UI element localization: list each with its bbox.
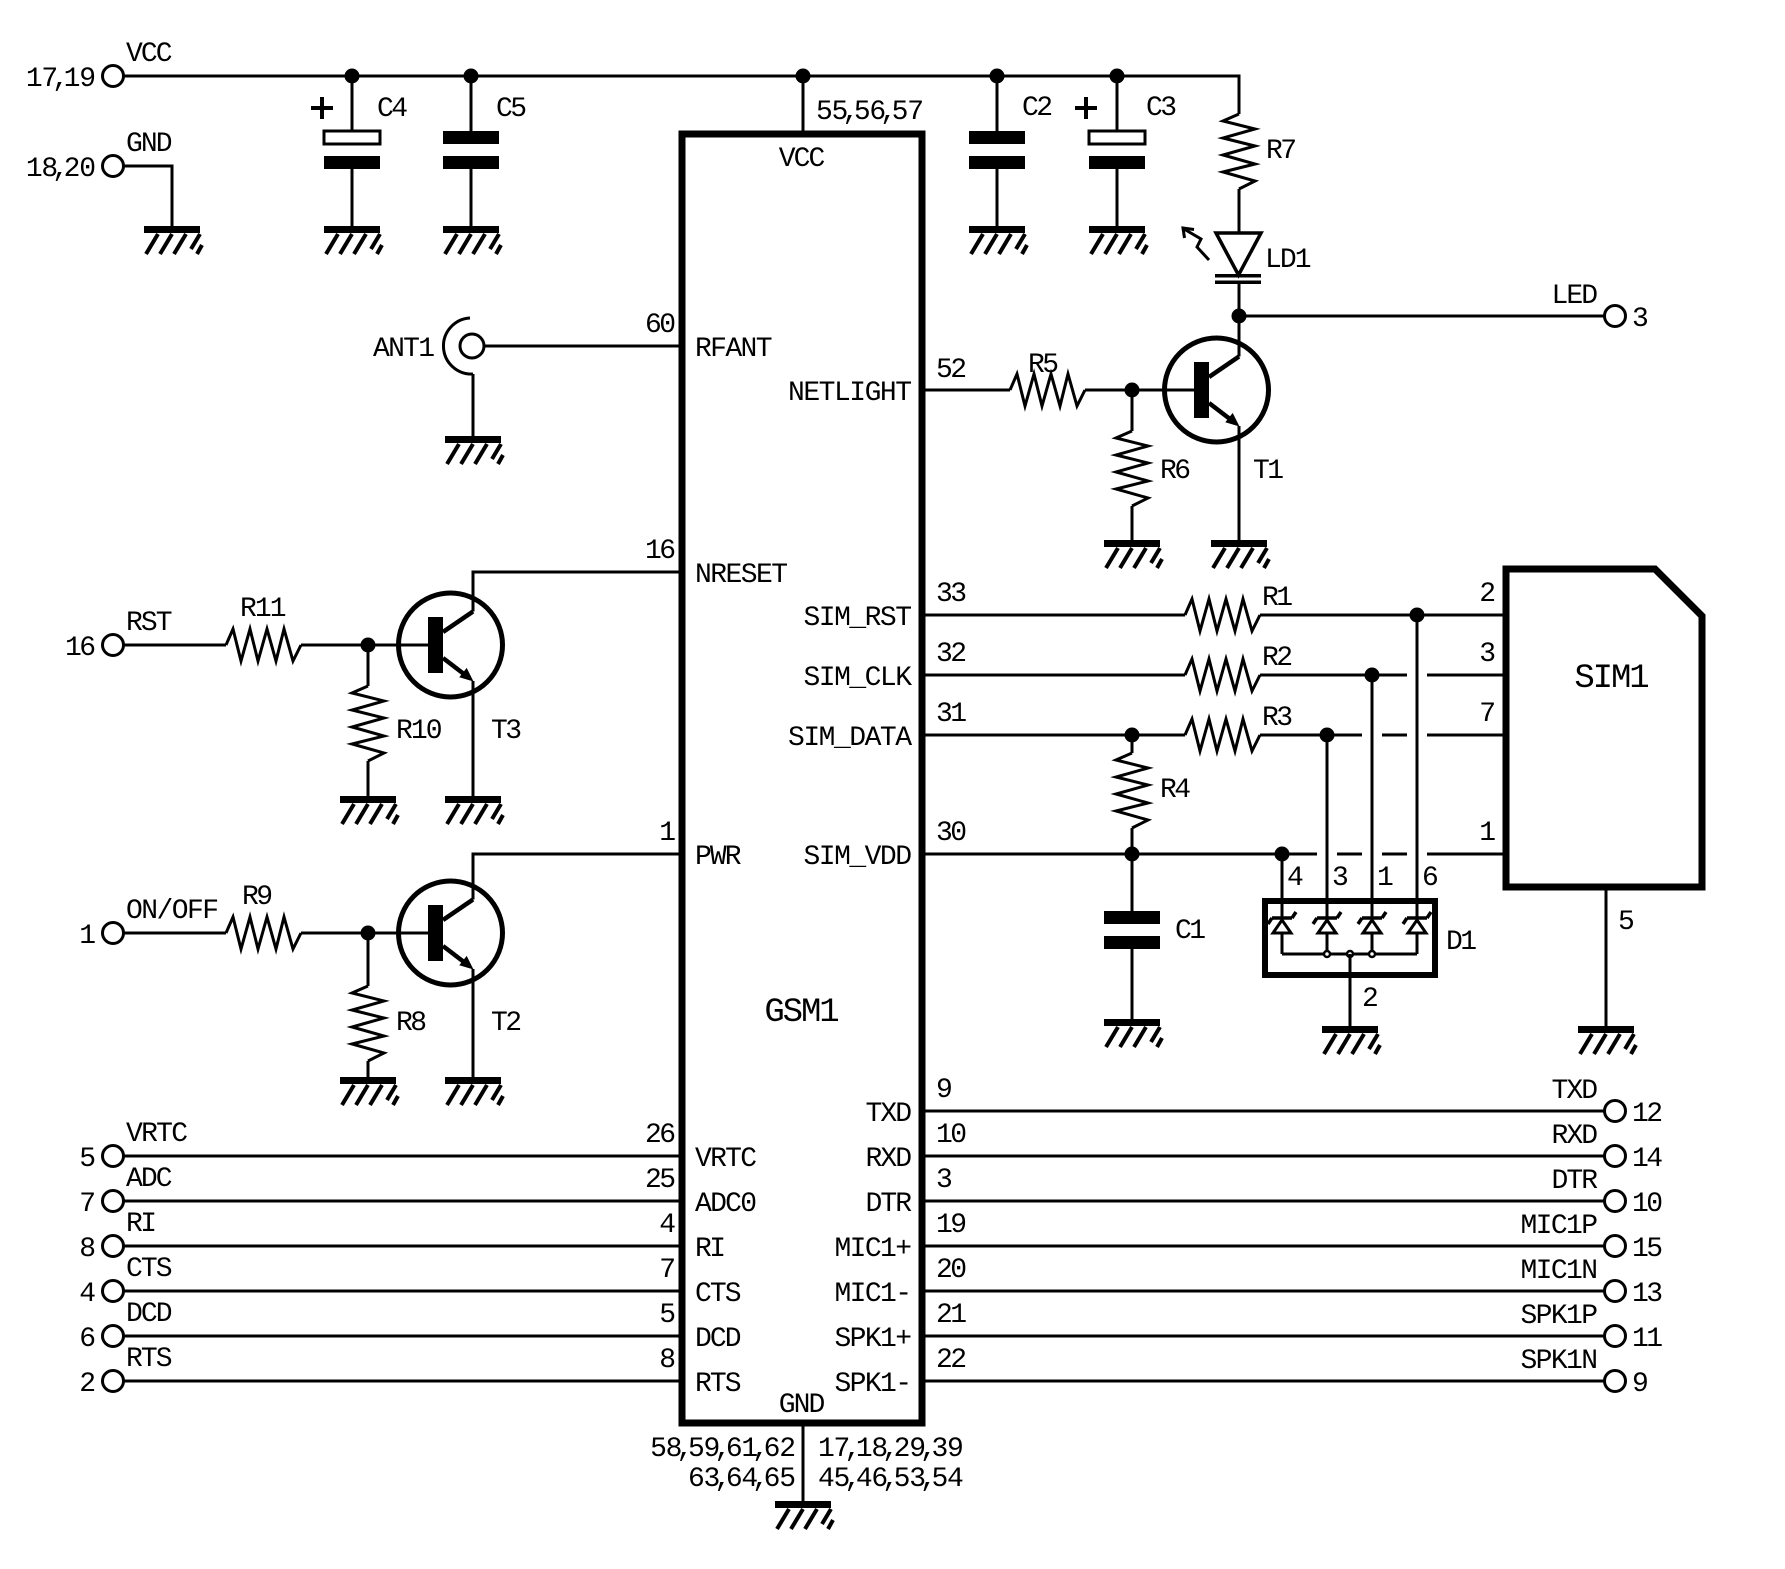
terminal 18,20 GND [103, 156, 124, 177]
capacitor C5 [443, 131, 499, 169]
terminal 5 VRTC [103, 1146, 124, 1167]
svg-text:1: 1 [1377, 863, 1394, 894]
resistor R5 [1010, 374, 1085, 406]
svg-text:3: 3 [1479, 639, 1496, 670]
svg-text:LD1: LD1 [1265, 245, 1312, 276]
svg-text:CTS: CTS [695, 1279, 742, 1310]
svg-text:MIC1+: MIC1+ [835, 1234, 913, 1265]
svg-text:T2: T2 [491, 1008, 522, 1039]
wire GSM1 VCC pin [802, 76, 805, 134]
svg-text:2: 2 [1362, 984, 1379, 1015]
svg-text:RI: RI [126, 1209, 157, 1240]
ground C3 [1089, 226, 1147, 254]
svg-text:TXD: TXD [866, 1099, 913, 1130]
node D1 rail center [1347, 951, 1353, 957]
diode array D1 box [1265, 901, 1435, 975]
svg-text:8: 8 [659, 1345, 676, 1376]
junction LED node [1232, 309, 1247, 324]
svg-text:PWR: PWR [695, 842, 742, 873]
polarity + of C3 [1075, 97, 1097, 119]
svg-text:1: 1 [659, 818, 676, 849]
wire SIM_DATA to R4 [1131, 735, 1134, 753]
node D1 rail pin1 [1369, 951, 1375, 957]
svg-text:9: 9 [936, 1075, 953, 1106]
svg-text:17,18,29,39: 17,18,29,39 [818, 1434, 964, 1465]
resistor R3 [1185, 719, 1260, 751]
junction C4/VCC [345, 69, 360, 84]
resistor R2 [1185, 659, 1260, 691]
capacitor C4 [324, 131, 380, 169]
svg-text:RI: RI [695, 1234, 726, 1265]
svg-text:SIM_VDD: SIM_VDD [804, 842, 913, 873]
wire R6 to ground [1131, 506, 1134, 540]
wire R11 to T3 base [301, 644, 428, 647]
svg-text:LED: LED [1552, 281, 1599, 312]
svg-text:DCD: DCD [695, 1324, 742, 1355]
terminal 8 RI [103, 1236, 124, 1257]
wire segment between crossings 2 [1382, 853, 1407, 856]
svg-text:ON/OFF: ON/OFF [126, 896, 219, 927]
zener diode D1d [1403, 912, 1431, 954]
junction C2/VCC [990, 69, 1005, 84]
capacitor C1 [1104, 911, 1160, 949]
svg-text:4: 4 [1287, 863, 1304, 894]
svg-text:3: 3 [1332, 863, 1349, 894]
svg-text:T1: T1 [1253, 456, 1284, 487]
svg-text:GND: GND [779, 1390, 826, 1421]
wire R7 to LED [1238, 189, 1241, 233]
wire VCC to C5 [470, 76, 473, 131]
svg-text:ADC0: ADC0 [695, 1189, 757, 1220]
svg-text:10: 10 [936, 1120, 967, 1151]
ground C2 [969, 226, 1027, 254]
ground C1 [1104, 1019, 1162, 1047]
wire T3 emitter [472, 681, 475, 796]
svg-text:1: 1 [79, 921, 96, 952]
svg-text:C3: C3 [1146, 93, 1177, 124]
svg-text:CTS: CTS [126, 1254, 173, 1285]
ground C5 [443, 226, 501, 254]
junction C5/VCC [464, 69, 479, 84]
zener diode D1b [1313, 912, 1341, 954]
transistor T3 [399, 593, 503, 697]
svg-text:VCC: VCC [779, 144, 826, 175]
svg-text:11: 11 [1632, 1324, 1663, 1355]
svg-text:RXD: RXD [866, 1144, 913, 1175]
svg-text:17,19: 17,19 [26, 64, 96, 95]
svg-text:20: 20 [936, 1255, 967, 1286]
svg-text:R11: R11 [240, 594, 287, 625]
wire SIM_CLK pin to R2 [922, 674, 1185, 677]
terminal 6 DCD [103, 1326, 124, 1347]
svg-text:RTS: RTS [126, 1344, 173, 1375]
wire segment between crossings [1382, 734, 1407, 737]
svg-text:SPK1P: SPK1P [1521, 1301, 1599, 1332]
svg-text:R7: R7 [1266, 136, 1297, 167]
wire R9 to T2 base [301, 932, 428, 935]
svg-text:R4: R4 [1160, 775, 1191, 806]
svg-text:RXD: RXD [1552, 1121, 1599, 1152]
svg-text:MIC1P: MIC1P [1521, 1211, 1599, 1242]
svg-text:DTR: DTR [1552, 1166, 1599, 1197]
LED LD1 [1183, 228, 1261, 284]
wire SIM1 pin 5 to ground [1605, 887, 1608, 1026]
svg-text:NRESET: NRESET [695, 560, 788, 591]
wire node to R6 [1131, 390, 1134, 431]
svg-text:SPK1+: SPK1+ [835, 1324, 913, 1355]
svg-text:8: 8 [79, 1234, 96, 1265]
svg-text:7: 7 [1479, 699, 1496, 730]
svg-text:SIM1: SIM1 [1574, 660, 1649, 698]
junction SIM_VDD/C1 [1125, 847, 1140, 862]
svg-text:C4: C4 [377, 94, 408, 125]
wire D1 common cathode rail [1282, 953, 1417, 956]
svg-text:GND: GND [126, 129, 173, 160]
wire R4 to SIM_VDD [1131, 828, 1134, 854]
terminal 7 ADC [103, 1191, 124, 1212]
svg-text:2: 2 [79, 1369, 96, 1400]
zener diode D1a [1268, 912, 1296, 954]
svg-text:7: 7 [659, 1255, 676, 1286]
svg-text:RFANT: RFANT [695, 334, 773, 365]
wire to SIM1 pin 7 (after crossing) [1427, 734, 1506, 737]
wire segment between crossings 1 [1337, 853, 1362, 856]
junction SIM_CLK/D1 pin1 [1365, 668, 1380, 683]
junction R6/T1 base [1125, 383, 1140, 398]
svg-text:15: 15 [1632, 1234, 1663, 1265]
junction SIM_RST/D1 pin6 [1410, 608, 1425, 623]
wire D1 pin 6 [1416, 615, 1419, 918]
wire NETLIGHT pin to R5 [922, 389, 1010, 392]
terminal 14 RXD [1605, 1146, 1626, 1167]
junction R10/T3 base [361, 638, 376, 653]
wire MIC1- to terminal 13 [922, 1290, 1604, 1293]
resistor R10 [352, 686, 384, 761]
wire D1 pin 3 [1326, 735, 1329, 918]
svg-text:C5: C5 [496, 94, 527, 125]
svg-text:ADC: ADC [126, 1164, 173, 1195]
svg-text:22: 22 [936, 1345, 967, 1376]
GSM module GSM1 outline [682, 134, 922, 1423]
wire R5 to T1 base [1085, 389, 1194, 392]
svg-text:R10: R10 [396, 716, 443, 747]
svg-text:ANT1: ANT1 [373, 334, 435, 365]
svg-text:DCD: DCD [126, 1299, 173, 1330]
wire RI to GSM1 [124, 1245, 682, 1248]
ground ANT1 [445, 436, 503, 464]
svg-text:6: 6 [1422, 863, 1439, 894]
wire VCC to C3 [1116, 76, 1119, 131]
svg-text:55,56,57: 55,56,57 [816, 97, 924, 128]
wire R8 to ground [367, 1061, 370, 1077]
wire R1 to SIM1 pin 2 [1260, 614, 1506, 617]
terminal 15 MIC1P [1605, 1236, 1626, 1257]
svg-text:60: 60 [645, 310, 676, 341]
svg-text:C2: C2 [1022, 93, 1053, 124]
svg-text:26: 26 [645, 1120, 676, 1151]
wire VCC rail [124, 76, 1239, 114]
svg-text:R6: R6 [1160, 456, 1191, 487]
svg-text:18,20: 18,20 [26, 154, 96, 185]
ground R10 [340, 796, 398, 824]
junction GSM1-VCC pin [796, 69, 811, 84]
svg-text:3: 3 [936, 1165, 953, 1196]
svg-text:32: 32 [936, 639, 967, 670]
svg-text:45,46,53,54: 45,46,53,54 [818, 1464, 964, 1495]
junction C3/VCC [1110, 69, 1125, 84]
wire C5 to ground [470, 169, 473, 226]
wire MIC1+ to terminal 15 [922, 1245, 1604, 1248]
wire T2 emitter [472, 969, 475, 1077]
wire SPK1- to terminal 9 [922, 1380, 1604, 1383]
terminal 2 RTS [103, 1371, 124, 1392]
wire ADC to GSM1 [124, 1200, 682, 1203]
wire LED node to terminal 3 [1239, 315, 1604, 318]
svg-text:16: 16 [645, 536, 676, 567]
resistor R4 [1116, 753, 1148, 828]
junction R8/T2 base [361, 926, 376, 941]
svg-text:2: 2 [1479, 579, 1496, 610]
wire node to R8 [367, 933, 370, 986]
svg-text:VRTC: VRTC [695, 1144, 757, 1175]
svg-text:TXD: TXD [1552, 1076, 1599, 1107]
terminal 12 TXD [1605, 1101, 1626, 1122]
svg-text:R2: R2 [1262, 643, 1293, 674]
wire R10 to ground [367, 761, 370, 796]
svg-text:R5: R5 [1028, 350, 1059, 381]
svg-text:52: 52 [936, 355, 967, 386]
ground R6 [1104, 540, 1162, 568]
svg-text:13: 13 [1632, 1279, 1663, 1310]
svg-text:4: 4 [659, 1210, 676, 1241]
svg-text:63,64,65: 63,64,65 [688, 1464, 796, 1495]
wire ANT1 to RFANT pin [484, 345, 682, 348]
svg-text:SPK1N: SPK1N [1521, 1346, 1599, 1377]
wire to SIM1 pin 1 [1427, 853, 1506, 856]
ground T2 [445, 1077, 503, 1105]
svg-text:6: 6 [79, 1324, 96, 1355]
wire CTS to GSM1 [124, 1290, 682, 1293]
svg-text:9: 9 [1632, 1369, 1649, 1400]
svg-text:58,59,61,62: 58,59,61,62 [650, 1434, 796, 1465]
zener diode D1c [1358, 912, 1386, 954]
terminal 3 LED [1605, 306, 1626, 327]
wire T3 collector to NRESET pin [473, 572, 682, 612]
svg-text:7: 7 [79, 1189, 96, 1220]
svg-text:12: 12 [1632, 1099, 1663, 1130]
wire to SIM1 pin 3 (after crossing) [1427, 674, 1506, 677]
terminal 9 SPK1N [1605, 1371, 1626, 1392]
svg-text:MIC1N: MIC1N [1521, 1256, 1599, 1287]
terminal 16 RST [103, 635, 124, 656]
svg-text:16: 16 [65, 633, 96, 664]
antenna ANT1 [443, 318, 484, 374]
svg-text:C1: C1 [1175, 916, 1206, 947]
resistor R8 [352, 986, 384, 1061]
SIM connector SIM1 outline [1506, 569, 1702, 887]
wire GSM1 GND pin to ground [802, 1423, 805, 1501]
wire T1 emitter [1238, 426, 1241, 540]
wire SIM_RST pin to R1 [922, 614, 1185, 617]
wire D1 pin 1 [1371, 675, 1374, 918]
ground D1 [1322, 1026, 1380, 1054]
junction SIM_VDD/D1 pin4 [1275, 847, 1290, 862]
terminal 13 MIC1N [1605, 1281, 1626, 1302]
wire TXD to terminal 12 [922, 1110, 1604, 1113]
wire C3 to ground [1116, 169, 1119, 226]
capacitor C2 [969, 131, 1025, 169]
svg-text:DTR: DTR [866, 1189, 913, 1220]
wire VRTC to GSM1 [124, 1155, 682, 1158]
wire R2 to SIM1 pin 3 (segment) [1260, 674, 1407, 677]
svg-text:10: 10 [1632, 1189, 1663, 1220]
svg-text:VCC: VCC [126, 39, 173, 70]
wire RXD to terminal 14 [922, 1155, 1604, 1158]
svg-text:NETLIGHT: NETLIGHT [788, 378, 912, 409]
junction SIM_DATA/R4 [1125, 728, 1140, 743]
wire GND terminal to ground [124, 166, 172, 226]
wire SIM_VDD to C1 [1131, 854, 1134, 911]
wire DTR to terminal 10 [922, 1200, 1604, 1203]
svg-text:SIM_CLK: SIM_CLK [804, 663, 913, 694]
wire C1 to ground [1131, 949, 1134, 1019]
svg-text:RTS: RTS [695, 1369, 742, 1400]
junction SIM_DATA/D1 pin3 [1320, 728, 1335, 743]
transistor T1 [1165, 338, 1269, 442]
svg-text:21: 21 [936, 1300, 967, 1331]
wire R3 to SIM1 pin 7 (segment) [1260, 734, 1362, 737]
resistor R1 [1185, 599, 1260, 631]
wire VCC to C2 [996, 76, 999, 131]
svg-text:GSM1: GSM1 [764, 994, 839, 1032]
svg-text:D1: D1 [1446, 927, 1477, 958]
svg-text:5: 5 [1618, 907, 1635, 938]
terminal 11 SPK1P [1605, 1326, 1626, 1347]
svg-text:5: 5 [659, 1300, 676, 1331]
ground GSM1 [775, 1501, 833, 1529]
svg-text:33: 33 [936, 579, 967, 610]
svg-text:R3: R3 [1262, 703, 1293, 734]
svg-text:19: 19 [936, 1210, 967, 1241]
svg-text:4: 4 [79, 1279, 96, 1310]
ground SIM1 pin5 [1578, 1026, 1636, 1054]
svg-text:SIM_RST: SIM_RST [804, 603, 913, 634]
wire VCC to C4 [351, 76, 354, 131]
svg-text:MIC1-: MIC1- [835, 1279, 913, 1310]
svg-text:SPK1-: SPK1- [835, 1369, 913, 1400]
wire SIM_DATA pin to R3 [922, 734, 1185, 737]
wire ANT1 to ground [472, 374, 475, 436]
polarity + of C4 [311, 97, 333, 119]
terminal 10 DTR [1605, 1191, 1626, 1212]
wire C4 to ground [351, 169, 354, 226]
svg-text:5: 5 [79, 1144, 96, 1175]
resistor R11 [226, 629, 301, 661]
wire RTS to GSM1 [124, 1380, 682, 1383]
ground R8 [340, 1077, 398, 1105]
svg-text:25: 25 [645, 1165, 676, 1196]
wire SPK1+ to terminal 11 [922, 1335, 1604, 1338]
svg-text:30: 30 [936, 818, 967, 849]
ground T1 [1211, 540, 1269, 568]
svg-text:R1: R1 [1262, 583, 1293, 614]
wire D1 pin 4 [1281, 854, 1284, 918]
wire D1 pin 2 to ground [1349, 954, 1352, 1026]
terminal 4 CTS [103, 1281, 124, 1302]
ground C4 [324, 226, 382, 254]
wire ON/OFF to R9 [124, 932, 226, 935]
resistor R9 [226, 917, 301, 949]
resistor R7 [1223, 114, 1255, 189]
svg-text:T3: T3 [491, 716, 522, 747]
svg-text:SIM_DATA: SIM_DATA [788, 723, 912, 754]
node D1 rail pin3 [1324, 951, 1330, 957]
svg-text:RST: RST [126, 608, 173, 639]
svg-text:1: 1 [1479, 818, 1496, 849]
wire LED cathode to node [1238, 284, 1241, 316]
terminal 17,19 VCC [103, 66, 124, 87]
wire DCD to GSM1 [124, 1335, 682, 1338]
wire RST to R11 [124, 644, 226, 647]
svg-text:14: 14 [1632, 1144, 1663, 1175]
wire T2 collector to PWR pin [473, 854, 682, 900]
wire C2 to ground [996, 169, 999, 226]
ground GND terminal [144, 226, 202, 254]
wire SIM_VDD pin to node [922, 853, 1317, 856]
terminal 1 ON/OFF [103, 923, 124, 944]
svg-text:R9: R9 [242, 882, 273, 913]
wire node to R10 [367, 645, 370, 686]
resistor R6 [1116, 431, 1148, 506]
svg-text:R8: R8 [396, 1008, 427, 1039]
transistor T2 [399, 881, 503, 985]
svg-text:VRTC: VRTC [126, 1119, 188, 1150]
svg-text:3: 3 [1632, 304, 1649, 335]
capacitor C3 [1089, 131, 1145, 169]
svg-text:31: 31 [936, 699, 967, 730]
ground T3 [445, 796, 503, 824]
wire T1 collector [1238, 316, 1241, 357]
